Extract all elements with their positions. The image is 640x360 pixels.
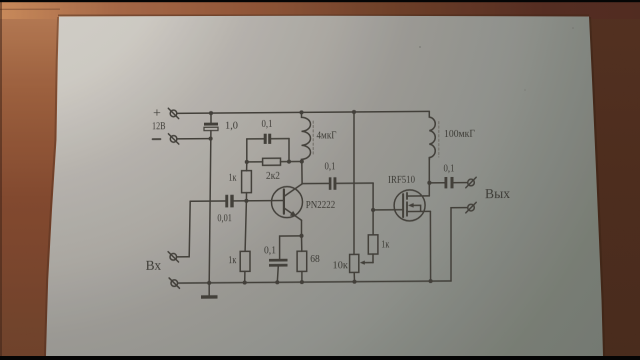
wire minus lead bbox=[177, 138, 211, 140]
terminal Вх lower bbox=[169, 278, 179, 288]
resistor R4 68 (emitter) bbox=[297, 236, 307, 282]
capacitor C3 0,01 bbox=[190, 194, 284, 207]
capacitor C5 0,1 (emitter bypass) bbox=[269, 259, 288, 283]
wire input riser bbox=[177, 201, 191, 257]
paper edge shadow right bbox=[590, 17, 604, 357]
terminal - (supply minus) bbox=[168, 134, 178, 144]
wood left plank bbox=[0, 0, 72, 360]
paper edge shadow left bbox=[45, 17, 58, 357]
node junction loop right bbox=[287, 160, 291, 164]
letterbox bars bbox=[0, 0, 640, 2]
node junction rail 1к bbox=[243, 281, 247, 285]
terminal Вх upper bbox=[168, 252, 178, 262]
node junction emitter bbox=[299, 234, 303, 238]
node junction 2к2 left bbox=[245, 160, 249, 164]
inductor L2 100мкГ bbox=[429, 111, 439, 159]
dust speck 1 bbox=[419, 46, 421, 48]
transistor Q2 IRF510 (MOSFET) bbox=[394, 190, 430, 221]
wire down to gate node bbox=[372, 183, 374, 210]
node junction rail pot bbox=[352, 280, 356, 284]
wire emitter to bypass cap bbox=[280, 236, 302, 259]
node junction drain bbox=[427, 181, 431, 185]
label minus sign bbox=[153, 138, 161, 140]
wire loop left vertical bbox=[246, 139, 248, 162]
dust speck 2 bbox=[572, 27, 574, 29]
wire ground rail bbox=[178, 281, 451, 283]
inductor L1 4мкГ bbox=[299, 110, 313, 161]
wire source vertical bbox=[429, 211, 431, 281]
wire minus vertical down to ground rail bbox=[209, 131, 211, 283]
schematic (slightly skewed like the photo) bbox=[146, 104, 510, 300]
potentiometer R5 10к bbox=[350, 254, 373, 281]
wire output return bbox=[451, 208, 468, 281]
node junction rail at ground bbox=[207, 281, 211, 285]
dust speck 3 bbox=[524, 89, 526, 91]
resistor R3 1к (lower, base to ground) bbox=[240, 201, 250, 283]
node junction rail source bbox=[429, 279, 433, 283]
resistor R6 1к (gate) bbox=[368, 210, 378, 263]
wire collector to coupling cap bbox=[302, 182, 329, 184]
node junction rail bypass bbox=[275, 280, 279, 284]
node junction minus wire bbox=[209, 137, 213, 141]
resistor R2 1к (upper bias) bbox=[242, 162, 252, 201]
node junction gate bbox=[371, 208, 375, 212]
wire emitter vertical bbox=[301, 220, 303, 236]
feedback loop: capacitor C2 0,1 bbox=[247, 134, 289, 145]
ground bbox=[201, 283, 218, 299]
wire drain vertical bbox=[428, 158, 430, 196]
paper edge shadow top bbox=[58, 14, 589, 16]
capacitor C1 1,0 (electrolytic) bbox=[204, 113, 218, 131]
wire top supply rail bbox=[177, 111, 429, 113]
resistor R1 2к2 bbox=[247, 158, 302, 165]
transistor Q1 PN2222 bbox=[272, 184, 303, 221]
node junction top rail at C1 bbox=[209, 111, 213, 115]
terminal Вых lower bbox=[466, 202, 476, 212]
terminal + (supply plus) bbox=[168, 108, 178, 118]
wood darker left border bbox=[0, 0, 2, 360]
node junction top rail pot bbox=[352, 110, 356, 114]
wood plank seam top-left bbox=[0, 8, 60, 10]
wire collector vertical bbox=[301, 162, 303, 184]
wire gate node to gate bbox=[373, 209, 403, 211]
wood top strip bbox=[0, 0, 640, 19]
terminal Вых upper bbox=[466, 177, 476, 187]
node junction rail 68 bbox=[300, 280, 304, 284]
node junction collector top bbox=[300, 159, 304, 163]
wire loop right vertical bbox=[288, 139, 290, 162]
node junction base bbox=[244, 199, 248, 203]
capacitor C6 0,1 (output) bbox=[429, 177, 467, 189]
wire pot supply vertical bbox=[353, 112, 355, 254]
capacitor C4 0,1 (coupling to gate) bbox=[329, 177, 373, 190]
